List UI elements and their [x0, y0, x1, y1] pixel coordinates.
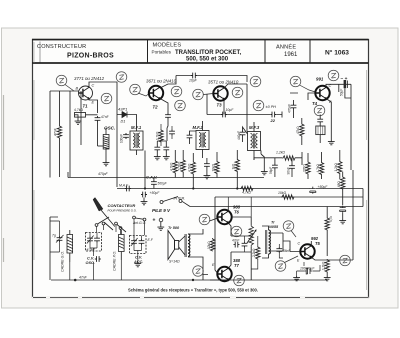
test point T2 right upper [171, 86, 182, 97]
wire C23 ground [143, 198, 145, 201]
output transformer winding [188, 234, 190, 256]
wire T3 collector up [224, 84, 247, 88]
capacitor C19 CAV [151, 180, 157, 186]
svg-text:N055: N055 [269, 225, 279, 229]
switch levers [98, 217, 144, 232]
trimmer arrow C24 [56, 235, 64, 243]
resistor R10 horizontal 1.2k [282, 156, 295, 160]
switch contact K4 [119, 227, 122, 230]
test point T4 left [290, 76, 301, 87]
svg-text:T5: T5 [315, 241, 321, 246]
svg-text:47nF: 47nF [79, 276, 88, 280]
box CV ACC dashed [130, 236, 147, 254]
svg-text:10kΩ: 10kΩ [207, 241, 211, 249]
svg-text:T4: T4 [312, 101, 318, 106]
capacitor C4 top coupling [191, 73, 197, 79]
ground under C16 [204, 174, 211, 179]
svg-text:M.A.F: M.A.F [119, 184, 129, 188]
test point T2 right lower [175, 100, 186, 111]
resistor R6 [181, 159, 185, 172]
wire T4 collector to supply [326, 84, 351, 87]
transistor T5 [300, 244, 314, 258]
test point T6 emitter [231, 226, 242, 237]
resistor R17 interstage [210, 238, 214, 251]
wire R3 leads [301, 118, 303, 145]
ground under L1 [103, 161, 110, 166]
resistor R4 T4 emitter box [316, 126, 325, 135]
svg-text:3671 ou 2N410: 3671 ou 2N410 [146, 79, 177, 84]
ground under C14 [156, 152, 158, 156]
capacitor C9 left of MF2 [187, 134, 193, 140]
svg-text:47kΩ: 47kΩ [296, 126, 300, 134]
capacitor C6 beside MF1 [123, 133, 129, 139]
wire T6 base [210, 218, 218, 221]
svg-text:1,2kΩ: 1,2kΩ [178, 161, 182, 170]
svg-text:3771 ou 2N412: 3771 ou 2N412 [74, 76, 105, 81]
schematic card frame [33, 40, 369, 298]
resistor R3 T4 bias [300, 123, 304, 136]
capacitor C31 electro [242, 242, 248, 248]
capacitor C12 T4 input [291, 104, 297, 110]
wire CAV rail left drop [67, 172, 69, 178]
coil CADRE GO [67, 235, 73, 254]
transistor T6 [217, 210, 231, 224]
test point T6 base [199, 214, 210, 225]
capacitor C10 left of MF3 [240, 131, 246, 137]
svg-text:+: + [153, 218, 156, 224]
capacitor C8 jack [270, 112, 276, 118]
wire C22 to ground [342, 213, 344, 219]
wire top coupling rail [176, 76, 247, 83]
wire C16 leads [206, 158, 208, 174]
capacitor C27 below CV OSC [95, 256, 101, 262]
switch contact K1 [95, 224, 98, 227]
junction dot speaker return [192, 279, 194, 281]
svg-text:470pF: 470pF [98, 172, 109, 176]
svg-text:1,2kΩ: 1,2kΩ [276, 151, 285, 155]
svg-text:1kΩ: 1kΩ [232, 163, 236, 169]
wire T7 leads [203, 252, 232, 280]
resistor R9 [235, 159, 239, 172]
ground MF3 secondary [261, 170, 268, 175]
speaker HP [168, 231, 175, 260]
capacitor C29 in CV ACC [139, 239, 145, 245]
svg-text:4,7kΩ: 4,7kΩ [188, 163, 192, 172]
wire T1 collector to top [89, 82, 117, 187]
svg-text:MODÈLES: MODÈLES [153, 41, 182, 48]
svg-text:OSC.: OSC. [104, 126, 115, 131]
electrolytic C21 on bus [310, 187, 316, 194]
electrolytic C23 at switch [141, 192, 147, 198]
junction dot T7 return [227, 279, 229, 281]
resistor R18 [256, 246, 260, 259]
resistor R14 horizontal on bus [240, 186, 253, 190]
wire T5 base [283, 233, 300, 252]
svg-text:POUR PRENDRE G.O.: POUR PRENDRE G.O. [108, 209, 137, 213]
wire mid vertical x251 [231, 217, 251, 280]
switch contact K2 [102, 222, 105, 225]
wire MF3 verticals [254, 122, 261, 160]
resistor R1 polarisation [57, 125, 61, 138]
svg-text:4,7kΩ: 4,7kΩ [242, 191, 251, 195]
wire gnd stub MF3 [261, 154, 264, 170]
capacitor C20 on bus [125, 186, 131, 192]
antenna rod contacteur [93, 198, 103, 212]
wire C17 leads [274, 158, 276, 177]
wire C31 leads [244, 236, 246, 252]
svg-text:4,7k: 4,7k [329, 216, 333, 222]
svg-text:M.F.1: M.F.1 [131, 125, 142, 130]
wire R12 leads [321, 152, 323, 179]
capacitor C30 feedback [234, 242, 240, 248]
capacitor C24 cadre GO [57, 236, 63, 242]
resistor R8 [215, 161, 219, 174]
wire ground T4 stub [326, 99, 331, 141]
svg-text:56pF: 56pF [269, 167, 273, 174]
svg-text:1,2kΩ: 1,2kΩ [334, 162, 338, 171]
svg-text:C.V.: C.V. [87, 257, 94, 261]
svg-text:1961: 1961 [284, 52, 298, 58]
capacitor C7 on AF rail [221, 112, 227, 118]
capacitor C16 [204, 162, 210, 168]
wire R7 leads [192, 153, 194, 188]
svg-text:7g: 7g [52, 234, 56, 238]
junction dots AVC bus [144, 187, 146, 189]
wire T6 leads [228, 207, 231, 237]
svg-text:C: C [298, 242, 301, 246]
potentiometer volume [249, 225, 254, 247]
box CV OSC dashed [86, 233, 102, 252]
svg-text:47nF: 47nF [54, 128, 58, 136]
ground under R2 [75, 120, 82, 125]
wire MF2 verticals [202, 121, 204, 158]
svg-text:47nF: 47nF [101, 115, 109, 119]
wire L1 to ground [105, 148, 107, 161]
wire speaker links [179, 229, 203, 280]
capacitor C2 emitter [95, 116, 101, 122]
svg-text:+50µF: +50µF [150, 191, 161, 195]
svg-text:500, 550 et 300: 500, 550 et 300 [186, 57, 229, 63]
svg-text:47nF: 47nF [232, 239, 240, 243]
svg-text:220Ω: 220Ω [302, 164, 306, 172]
wire cadre GO leads [69, 230, 71, 262]
resistor R19 T5 collector [325, 217, 329, 230]
trimmer arrow C28 [131, 238, 138, 246]
svg-text:100nF: 100nF [120, 134, 124, 143]
wire R4 down [319, 135, 321, 143]
wire cadre PO leads [120, 230, 122, 260]
svg-text:T7: T7 [234, 263, 240, 268]
transistor T7 [217, 267, 231, 281]
ground under CV ACC [134, 262, 141, 267]
wire C15 up [157, 128, 167, 146]
wire T3 emitter drop [223, 99, 225, 115]
capacitor C25 in CV OSC [87, 237, 93, 243]
ground under C22 [339, 219, 346, 224]
wire left vertical bus 4 [80, 91, 82, 145]
capacitor C5 T2 emitter [165, 113, 171, 119]
scan artifact left edge marks [3, 95, 5, 262]
svg-text:470nF: 470nF [288, 104, 292, 113]
capacitor C18 [289, 164, 295, 170]
test point T2 base left [116, 72, 127, 83]
wire bottom bus [51, 279, 215, 281]
test point T4 emitter [314, 105, 325, 116]
wire tp to T4 base [300, 85, 316, 92]
test point T7 bottom [234, 275, 245, 286]
svg-text:T3: T3 [217, 103, 223, 108]
resistor R2 emitter 4.7k box [75, 113, 86, 118]
wire C14 up [156, 141, 158, 146]
oscillator coil L1 [103, 135, 109, 150]
test point T2 base lower [130, 84, 141, 95]
capacitor C26 in CV OSC [94, 237, 100, 243]
svg-text:Tr 500: Tr 500 [168, 226, 180, 230]
svg-text:CONTACTEUR: CONTACTEUR [108, 203, 136, 208]
wire R13 leads [339, 150, 341, 179]
wire R2 leads [75, 115, 98, 120]
wire C5 down [167, 119, 168, 128]
svg-text:90nF: 90nF [286, 167, 290, 174]
svg-text:4,7kΩ: 4,7kΩ [170, 162, 174, 171]
svg-text:PILE 9 V: PILE 9 V [152, 208, 171, 213]
wire tp link T5 [291, 231, 296, 238]
electrolytic C33 T5 emitter [305, 268, 312, 274]
wire T3 base drop to AF rail [206, 95, 208, 115]
wire right rail down [352, 170, 354, 260]
capacitor C17 [272, 164, 278, 170]
transistor T3 [213, 86, 227, 100]
wire C13 leads [319, 115, 321, 127]
wire T2 collector riser [160, 76, 176, 89]
svg-text:CADRE P.O.: CADRE P.O. [113, 251, 117, 271]
wire C19 leads [153, 178, 155, 189]
capacitor C32 driver [276, 247, 282, 253]
test point T7 left [193, 266, 204, 277]
wire left vertical bus 3 [69, 91, 71, 177]
transistor T4 [315, 86, 329, 100]
wire R8 leads [216, 152, 218, 178]
wire R6 leads [182, 150, 184, 178]
svg-text:10µF: 10µF [226, 108, 235, 112]
header table rules [32, 39, 369, 41]
svg-text:C: C [92, 84, 95, 88]
wire C24 leads [50, 221, 60, 252]
svg-text:100 40µF: 100 40µF [300, 267, 315, 271]
svg-text:10kΩ: 10kΩ [278, 191, 286, 195]
wire T1 base rail [50, 90, 79, 92]
test point T5 base top [283, 221, 294, 232]
wire left vertical bus 1 [49, 91, 51, 178]
svg-text:Tr: Tr [271, 221, 275, 225]
wire output stage bottom bus [215, 279, 327, 281]
svg-text:±0 PH: ±0 PH [266, 105, 277, 109]
switch contact K3 [115, 222, 118, 225]
resistor R12 [319, 162, 323, 175]
test point T5 left bottom [275, 261, 286, 272]
svg-text:1,2kΩ: 1,2kΩ [322, 261, 326, 270]
capacitor C34 beside R21 [169, 130, 175, 136]
svg-text:T1: T1 [83, 104, 89, 109]
svg-text:50µF: 50µF [340, 89, 344, 96]
svg-text:N° 1063: N° 1063 [325, 48, 349, 56]
svg-text:T2: T2 [153, 105, 159, 110]
wire C10 stub [243, 127, 248, 142]
wire R21 C34 stubs [161, 124, 172, 146]
diode D1 [117, 112, 131, 118]
driver transformer Tr winding [269, 230, 271, 254]
svg-text:440pF: 440pF [237, 131, 241, 140]
resistor R15 68ohm [341, 176, 345, 189]
wire MF3 top feed [246, 84, 248, 132]
svg-text:4,7kΩ: 4,7kΩ [74, 108, 83, 112]
switch contact K6 [143, 218, 146, 221]
svg-text:470pF: 470pF [87, 248, 96, 252]
wire T3 base lead [204, 94, 214, 95]
transformer MF2 [196, 131, 209, 150]
test point T4 top right [328, 70, 339, 81]
svg-text:T6: T6 [234, 210, 240, 215]
resistor R16 horizontal 10k [281, 195, 294, 199]
wire R15 leads [342, 172, 344, 205]
wire CV ACC leads [134, 236, 142, 263]
test point T3 inner [232, 87, 243, 98]
svg-text:2,2kΩ: 2,2kΩ [252, 248, 256, 257]
switch contact K5 [133, 216, 136, 219]
wire C33 leads [297, 262, 320, 276]
wire R5 leads [174, 150, 176, 178]
svg-text:1,7kΩ: 1,7kΩ [155, 131, 159, 140]
wire D1 to MF1 [131, 115, 137, 132]
wire R19 leads [326, 207, 328, 257]
svg-text:E.F: E.F [148, 238, 154, 242]
svg-text:C.V.: C.V. [135, 256, 142, 260]
svg-text:68Ω: 68Ω [337, 180, 341, 187]
svg-text:43P1: 43P1 [118, 107, 127, 112]
electrolytic C22 under R15 [340, 206, 346, 213]
ground under C23 [141, 200, 148, 205]
wire C2 down [98, 122, 107, 146]
wire cadre drops to bus [70, 260, 122, 280]
svg-text:Portables: Portables [152, 49, 172, 54]
test point right rail [340, 255, 351, 266]
wire C12 leads [293, 100, 295, 118]
coil CADRE PO [119, 235, 125, 252]
svg-text:Schéma général des récepteurs: Schéma général des récepteurs « Translit… [128, 288, 258, 293]
wire CV OSC leads [90, 233, 97, 257]
svg-text:S=14Ω: S=14Ω [169, 260, 180, 264]
svg-text:TRANSLITOR POCKET,: TRANSLITOR POCKET, [175, 50, 242, 56]
resistor R20 [325, 259, 329, 272]
svg-text:D1: D1 [121, 120, 126, 124]
wire driver transformer leads [262, 226, 283, 258]
test point MF3 [253, 100, 264, 111]
electrolytic C11 supply [344, 80, 347, 88]
wire AVC bus [117, 188, 363, 190]
wire C9 stub [190, 131, 197, 144]
svg-text:4,7kΩ: 4,7kΩ [316, 163, 320, 172]
resistor R21 beside MF1 [159, 129, 163, 142]
ground under R20 [324, 276, 331, 281]
transistor T1 [79, 86, 93, 100]
svg-text:560pF: 560pF [158, 182, 168, 186]
test point CS1 [56, 75, 67, 86]
wire CAV rail [68, 177, 264, 179]
svg-text:CONSTRUCTEUR: CONSTRUCTEUR [37, 44, 86, 50]
wire R20 to ground [326, 272, 328, 276]
svg-text:991: 991 [316, 77, 324, 82]
test point T3 base [193, 89, 204, 100]
wire R1 vertical [59, 91, 61, 177]
svg-text:+50µF: +50µF [318, 185, 329, 189]
wire test point CS1 link [65, 85, 74, 92]
wire T4 base vertical [290, 93, 315, 100]
oscillator coupling wire [98, 145, 104, 147]
test point T1 emitter [101, 93, 112, 104]
wire R11 leads [307, 153, 309, 179]
svg-text:M.F.2: M.F.2 [193, 125, 204, 130]
wire R9 leads [236, 150, 238, 188]
svg-text:10pF: 10pF [189, 79, 198, 83]
resistor R7 [191, 161, 195, 174]
wire C18 leads [291, 158, 293, 177]
resistor R11 [306, 161, 310, 174]
ground under C33 [293, 276, 300, 281]
wire T2 emitter down [160, 99, 168, 114]
wire supply bus [190, 189, 363, 207]
svg-text:M.F.3: M.F.3 [249, 125, 260, 130]
capacitor C13 T4 emitter [317, 118, 323, 124]
svg-text:C.A.V.: C.A.V. [146, 175, 157, 180]
switch interrupteur [160, 201, 163, 204]
wire mid rail [215, 196, 363, 198]
test point T3 top right [250, 76, 261, 87]
trimmer arrow C25 [87, 236, 94, 244]
capacitor C14 decoupling [154, 146, 160, 152]
ground under C15 [165, 152, 167, 156]
transformer MF3 [248, 132, 261, 151]
svg-text:10kΩ: 10kΩ [211, 163, 215, 171]
ground T4 area [328, 140, 335, 145]
wire AF takeoff rail [207, 112, 282, 118]
capacitor C15 decoupling [163, 146, 169, 152]
wire left bus low [50, 217, 58, 280]
svg-text:ANNÉE: ANNÉE [276, 43, 296, 50]
wire T5 collector emitter [311, 241, 353, 260]
wire T1 emitter down [89, 99, 98, 114]
svg-text:PIZON-BROS: PIZON-BROS [67, 53, 114, 60]
junction dot bottom bus [74, 279, 77, 282]
wire contact drops [97, 219, 145, 238]
wire MF1 bottom down [137, 150, 146, 188]
resistor R13 [338, 161, 342, 174]
battery terminal ground [160, 222, 162, 226]
wire tp T5 emitter link [285, 256, 299, 263]
wire C32 leads [279, 244, 283, 258]
wire T6 T7 base chain [215, 197, 217, 273]
svg-text:CADRE G.O.: CADRE G.O. [61, 251, 65, 272]
wire supply rail right vertical [339, 84, 351, 170]
wire test link T2 [138, 93, 149, 96]
wire R10 leads [254, 152, 302, 165]
wire R18 leads [251, 236, 258, 269]
transformer MF1 [130, 131, 143, 150]
transistor T2 [149, 86, 163, 100]
capacitor C28 in CV ACC [131, 239, 137, 245]
svg-text:22: 22 [270, 118, 276, 123]
wire T6 T7 collector rail drops [228, 197, 251, 217]
resistor R5 [173, 160, 177, 173]
